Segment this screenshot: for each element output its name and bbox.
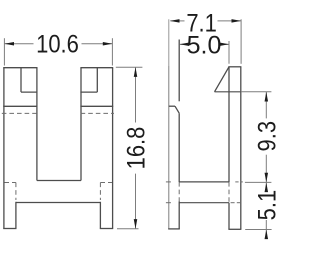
dim 5.0 arrows bbox=[180, 43, 229, 47]
svg-text:16.8: 16.8 bbox=[122, 127, 150, 170]
side view left flange bbox=[168, 40, 180, 229]
side view left flange light edge bbox=[168, 66, 170, 229]
dim 10.6 extension lines bbox=[4, 38, 112, 65]
dim 5.0 right extension line bbox=[228, 41, 230, 64]
side view base bottom line bbox=[179, 202, 229, 204]
dim 7.1 right extension line bbox=[240, 19, 242, 64]
svg-text:9.3: 9.3 bbox=[253, 121, 280, 152]
dim 5.0 line bbox=[180, 43, 229, 45]
side view right flange hidden edge bbox=[228, 182, 230, 203]
dim 9.3 top extension line bbox=[215, 91, 241, 93]
svg-text:10.6: 10.6 bbox=[36, 30, 79, 58]
side view winding window top line bbox=[179, 181, 229, 183]
svg-text:5.1: 5.1 bbox=[253, 190, 280, 221]
dim 7.1 arrows bbox=[170, 19, 241, 23]
side view left flange hidden edge bbox=[178, 182, 180, 202]
dim 10.6 line bbox=[5, 43, 113, 45]
dim 5.1 line bbox=[265, 182, 267, 239]
dim 9.3 bottom extension line bbox=[245, 181, 272, 183]
svg-text:5.0: 5.0 bbox=[187, 32, 222, 60]
dim 16.8 arrows bbox=[134, 67, 138, 228]
dim 16.8 line bbox=[135, 68, 137, 229]
side view right flange bbox=[215, 67, 242, 230]
front view hidden dashed lines bbox=[2, 113, 114, 200]
front view outline bbox=[3, 68, 113, 229]
dim 5.1 arrows bbox=[265, 183, 269, 240]
dim 7.1 left extension line bbox=[168, 19, 170, 66]
dim 16.8 extension lines bbox=[116, 67, 143, 229]
side view base bottom dashes bbox=[166, 202, 241, 204]
dim 7.1 line bbox=[170, 20, 241, 22]
dim 5.1 bottom extension line bbox=[245, 229, 271, 231]
dim 10.6 arrows bbox=[4, 42, 112, 46]
dim 9.3 arrows bbox=[265, 92, 269, 182]
dim 9.3 line bbox=[265, 92, 267, 182]
side view winding window top dashes bbox=[166, 181, 243, 183]
